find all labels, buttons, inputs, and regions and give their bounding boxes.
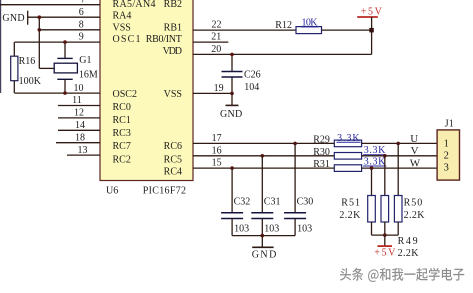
junction dot crystal pin10 — [63, 91, 67, 95]
svg-text:PIC16F72: PIC16F72 — [143, 185, 186, 196]
svg-text:U6: U6 — [106, 185, 118, 196]
capacitor C26 bottom lead — [231, 77, 233, 93]
svg-text:2.2K: 2.2K — [404, 210, 426, 221]
junction dot pull bus — [383, 233, 387, 237]
capacitor C26 top lead — [231, 54, 233, 71]
svg-text:13: 13 — [78, 145, 88, 156]
svg-text:VSS: VSS — [113, 22, 131, 33]
junction dot R12 +5V — [369, 28, 374, 33]
resistor R51 bottom lead — [371, 222, 373, 235]
resistor R30 body — [334, 153, 361, 160]
svg-text:RC2: RC2 — [113, 154, 131, 165]
svg-text:V: V — [411, 145, 419, 157]
svg-text:GND: GND — [252, 249, 276, 260]
svg-text:+5V: +5V — [374, 248, 396, 259]
svg-text:103: 103 — [264, 224, 279, 235]
capacitor C26 bottom plate — [222, 76, 243, 78]
wire R30 to J1 — [362, 155, 438, 157]
resistor R16 bottom lead — [13, 81, 15, 93]
wire pin 13 RC2 — [67, 154, 100, 156]
svg-text:C26: C26 — [244, 70, 261, 81]
power +5V bottom bar — [378, 245, 393, 247]
wire pin 21 RB0/INT stub — [193, 41, 228, 43]
resistor R29 value underline — [337, 141, 361, 143]
svg-text:17: 17 — [212, 133, 222, 144]
crystal G1 bottom plate — [57, 78, 72, 80]
svg-text:R50: R50 — [404, 198, 423, 209]
resistor R30 value underline — [363, 154, 386, 156]
wire pin 8 VSS — [39, 29, 100, 31]
svg-text:100K: 100K — [19, 76, 42, 87]
crystal G1 top lead — [64, 42, 66, 58]
svg-text:RC6: RC6 — [164, 141, 182, 152]
svg-text:103: 103 — [297, 224, 312, 235]
capacitor C32 plates — [221, 212, 243, 214]
wire pin 20 VDD — [193, 53, 372, 55]
junction dot crystal pin9 — [63, 40, 67, 44]
wire R31 to J1 — [362, 167, 438, 169]
power +5V top bar — [357, 16, 378, 18]
svg-text:VDD: VDD — [163, 46, 182, 57]
ground lead below caps — [261, 236, 263, 248]
svg-text:C30: C30 — [297, 197, 314, 208]
svg-text:R49: R49 — [398, 236, 418, 247]
svg-text:103: 103 — [234, 224, 249, 235]
capacitor C26 top plate — [222, 71, 243, 73]
wire pull resistor bus — [372, 234, 399, 236]
wire: left border cut line — [0, 0, 2, 93]
svg-text:R12: R12 — [275, 20, 292, 31]
ground bar below caps — [252, 246, 273, 248]
resistor R31 body — [334, 165, 361, 172]
connector J1 body — [437, 130, 459, 180]
resistor R16 top lead — [13, 42, 15, 56]
capacitor C30 bottom lead — [294, 219, 296, 236]
svg-text:OSC2: OSC2 — [113, 89, 137, 100]
GND net tick bar — [27, 11, 29, 25]
svg-text:G1: G1 — [79, 55, 91, 66]
svg-text:RB1: RB1 — [164, 22, 182, 33]
resistor R16 body — [11, 56, 18, 80]
wire pin 19 VSS — [193, 92, 232, 94]
svg-text:RC1: RC1 — [113, 115, 131, 126]
resistor R49 body — [381, 196, 389, 223]
junction dot pin6 GND — [38, 15, 42, 19]
svg-text:15: 15 — [212, 158, 222, 169]
junction dot C30 on pin17 wire — [293, 142, 297, 146]
junction dot R51 on W wire — [370, 166, 374, 170]
capacitor C30 plates — [284, 212, 306, 214]
resistor R12 body — [296, 27, 322, 34]
junction dot pin19 C26 — [230, 92, 234, 96]
wire pin 18 RC7 — [56, 142, 100, 144]
svg-text:W: W — [410, 158, 421, 170]
capacitor C30 top lead — [294, 143, 296, 212]
svg-text:GND: GND — [2, 13, 24, 24]
wire +5V vertical rail — [371, 17, 373, 54]
power +5V bottom drop — [384, 235, 386, 246]
svg-text:RC5: RC5 — [164, 154, 182, 165]
ground lead below C26 — [231, 93, 233, 105]
svg-text:RB0/INT: RB0/INT — [146, 34, 182, 45]
wire pin 16 RC5 — [193, 155, 334, 157]
junction dot C31 on pin16 wire — [261, 154, 265, 158]
svg-text:6: 6 — [79, 7, 84, 18]
svg-text:19: 19 — [214, 83, 224, 94]
resistor R50 body — [394, 196, 402, 223]
junction dot VDD C26 — [230, 53, 234, 57]
wire crystal case ground — [39, 67, 54, 69]
crystal G1 body — [54, 63, 77, 73]
resistor R49 bottom lead — [384, 222, 386, 235]
crystal G1 bottom lead — [64, 79, 66, 93]
wire pin 10 OSC2 — [15, 92, 101, 94]
svg-text:RB2: RB2 — [164, 0, 182, 10]
capacitor C32 bottom lead — [231, 219, 233, 236]
svg-text:C31: C31 — [264, 197, 281, 208]
resistor R12 right lead — [322, 29, 372, 31]
junction dot pin8 GND — [38, 28, 42, 32]
svg-text:7: 7 — [81, 0, 86, 5]
wire pin 14 RC3 — [58, 129, 100, 131]
IC U6 PIC16F72 body — [100, 0, 193, 181]
svg-text:1: 1 — [444, 139, 449, 150]
wire pin 6 RA4 — [28, 16, 100, 18]
svg-text:RC4: RC4 — [164, 167, 182, 178]
svg-text:RC0: RC0 — [113, 102, 131, 113]
wire pin 15 RC4 — [193, 167, 334, 169]
svg-text:R31: R31 — [313, 159, 330, 170]
svg-text:11: 11 — [72, 95, 82, 106]
svg-text:14: 14 — [75, 120, 85, 131]
capacitor C31 bottom lead — [261, 219, 263, 236]
svg-text:2.2K: 2.2K — [398, 248, 420, 259]
svg-text:20: 20 — [211, 44, 221, 55]
ground bar — [226, 104, 239, 106]
capacitor C32 top lead — [231, 168, 233, 213]
junction dot cap bus — [261, 234, 265, 238]
wire pin 22 RB1 — [193, 29, 296, 31]
capacitor C31 top lead — [261, 156, 263, 213]
svg-text:RA5/AN4: RA5/AN4 — [113, 0, 156, 10]
svg-text:R16: R16 — [19, 56, 36, 67]
resistor R51 body — [368, 196, 376, 223]
svg-text:10: 10 — [74, 83, 84, 94]
wire pin 12 RC1 — [58, 117, 100, 119]
svg-text:R29: R29 — [313, 134, 330, 145]
resistor R51 top lead — [371, 168, 373, 195]
wire capacitor ground bus — [232, 235, 295, 237]
wire pin 9 OSC1 — [15, 41, 101, 43]
svg-text:RA4: RA4 — [113, 10, 132, 21]
junction dot R50 on U wire — [396, 142, 400, 146]
svg-text:9: 9 — [79, 32, 84, 43]
svg-text:RC7: RC7 — [113, 141, 131, 152]
resistor R31 value underline — [363, 165, 386, 167]
wire pin 7 (cut at top) — [0, 4, 100, 6]
svg-text:R51: R51 — [341, 198, 360, 209]
resistor R29 body — [334, 140, 361, 147]
svg-text:12: 12 — [74, 108, 84, 119]
wire R29 to J1 — [362, 142, 438, 144]
resistor R49 top lead — [384, 156, 386, 196]
wire GND vertical drop — [38, 17, 40, 68]
svg-text:104: 104 — [244, 82, 259, 93]
svg-text:21: 21 — [211, 32, 221, 43]
svg-text:VSS: VSS — [164, 89, 182, 100]
svg-text:2.2K: 2.2K — [339, 210, 361, 221]
svg-text:RC3: RC3 — [113, 128, 131, 139]
svg-text:16M: 16M — [79, 69, 98, 80]
crystal G1 top plate — [57, 57, 72, 59]
resistor R50 top lead — [397, 143, 399, 195]
svg-text:U: U — [410, 133, 418, 145]
svg-text:GND: GND — [220, 109, 242, 120]
wire pin 11 RC0 — [58, 105, 100, 107]
svg-text:16: 16 — [212, 145, 222, 156]
junction dot C32 on pin15 wire — [230, 166, 234, 170]
svg-text:18: 18 — [75, 132, 85, 143]
svg-text:R30: R30 — [313, 147, 330, 158]
resistor R50 bottom lead — [397, 222, 399, 235]
wire pin 17 RC6 — [193, 142, 334, 144]
svg-text:C32: C32 — [234, 197, 251, 208]
svg-text:8: 8 — [79, 19, 84, 30]
capacitor C31 plates — [251, 212, 273, 214]
svg-text:+5V: +5V — [361, 6, 383, 17]
svg-text:2: 2 — [444, 151, 449, 162]
resistor R12 value underline — [301, 26, 319, 28]
svg-text:J1: J1 — [445, 119, 454, 130]
junction dot R49 on V wire — [383, 154, 387, 158]
svg-text:3: 3 — [444, 163, 449, 174]
svg-text:22: 22 — [212, 20, 222, 31]
